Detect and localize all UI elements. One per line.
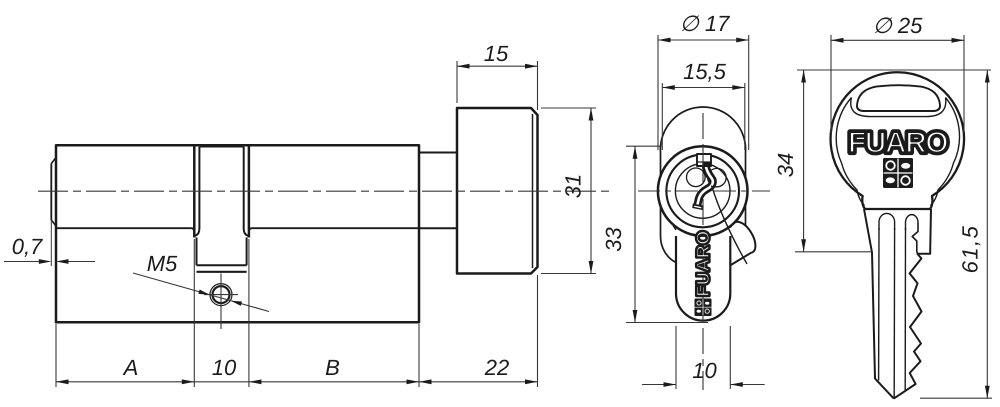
dim 31 (knob height) [541,107,596,109]
blade groove finger 1 [879,213,895,230]
blade groove finger 2 [906,215,919,230]
key neck right edge [929,209,932,250]
keyway right ear circle [708,168,726,186]
tail neck top [419,152,457,154]
face ring inner circle [666,155,739,228]
svg-text:FUARO: FUARO [848,127,948,160]
notch inner right wall with hook [244,147,248,236]
plug circle [675,164,730,219]
bow logo square [883,158,913,188]
body left flat [660,153,662,237]
chamfer extension line for 0,7 [50,220,52,266]
round-part tangent line right segment [249,228,419,232]
left taper chamfer [673,213,676,230]
svg-text:33: 33 [601,227,626,252]
notch back top edge [199,146,243,148]
key profile foot [692,204,703,211]
main horizontal centerline [38,190,610,192]
svg-text:22: 22 [484,355,509,380]
dim 0,7 [4,261,49,263]
bow inner offset line right [931,98,960,206]
horizontal centerline [638,190,770,192]
bottom dim line [56,381,538,383]
dim 34 [795,251,873,253]
key neck left edge [864,209,872,253]
cam notch outer left wall [193,144,196,238]
dim Ø17 [657,35,659,150]
stem left edge [675,236,677,294]
cam notch outer right wall [248,144,251,238]
leader M5 [133,273,269,312]
keyway top rectangle [697,154,711,166]
key bow edge-on (inserted key) [730,222,755,266]
dim A arrows [56,379,69,384]
right taper curve [730,236,745,263]
svg-text:15,5: 15,5 [683,59,727,84]
svg-text:B: B [325,355,340,380]
slot under-bridge line [851,98,946,117]
chamfer bevel bottom [51,220,56,226]
round-part tangent line left segment [56,228,194,232]
small logo square [695,299,712,317]
cam slot right wall [246,238,248,266]
svg-text:61,5: 61,5 [958,225,983,274]
svg-text:34: 34 [773,153,798,177]
cam slot floor lower line [197,271,247,273]
svg-text:10: 10 [692,358,717,383]
key profile white core [697,164,713,207]
stem right edge [729,236,731,294]
hole vertical centerline [220,274,222,330]
key bow outer outline [831,72,964,209]
svg-text:31: 31 [561,174,586,198]
dim Ø25 [830,35,832,133]
svg-text:A: A [122,355,139,380]
svg-text:FUARO: FUARO [693,230,713,297]
keyway left ear circle [687,168,706,187]
body round-top arc [660,107,745,153]
dim 15 (knob width) [456,61,458,103]
dim 10 (stem width) [675,326,677,389]
FUARO vertical text [693,230,713,297]
vertical centerline [702,113,704,390]
cam slot left wall [196,238,198,266]
tail neck bottom [419,227,457,229]
thumbturn knob outline [457,108,538,274]
finger2 right side upper [912,223,918,254]
dim 33 (body height) [626,145,661,147]
dim B arrows [249,379,262,384]
centerline through rect [702,150,704,167]
top shared extension line [797,69,991,71]
chamfer bevel top [51,158,56,164]
key silhouette diagonal line [712,186,748,265]
face chamfer line [50,164,52,221]
body right flat [745,153,747,237]
bottom dim extension lines [55,324,57,387]
cam slot floor upper line [197,264,247,266]
left taper curve [661,236,677,263]
svg-text:∅ 25: ∅ 25 [873,13,924,38]
face ring outer circle [658,146,748,236]
cylinder body outline [56,145,419,322]
hanging slot hole [857,85,940,111]
blade left edge [872,253,894,399]
svg-text:10: 10 [212,355,237,380]
key profile (dark ribbon) [697,164,713,207]
keyway rect mid line [697,161,711,163]
M5 screw hole thread circle [210,284,232,306]
dim 15,5 [661,83,663,150]
svg-text:0,7: 0,7 [12,234,43,259]
bow inner offset line left [836,98,864,206]
svg-text:15: 15 [484,41,509,66]
knob face chamfer line [532,114,534,268]
svg-text:∅ 17: ∅ 17 [680,11,731,36]
dim 61,5 [920,397,992,399]
stem rounded bottom [676,294,730,321]
M5 screw hole inner circle [213,286,230,303]
notch inner left wall with hook [195,147,199,236]
keyway rect dark lower part [702,162,710,166]
hole horizontal centerline [204,294,238,296]
svg-text:M5: M5 [147,251,178,276]
dim 22 arrows [419,379,432,384]
teeth bitting profile [894,250,930,399]
